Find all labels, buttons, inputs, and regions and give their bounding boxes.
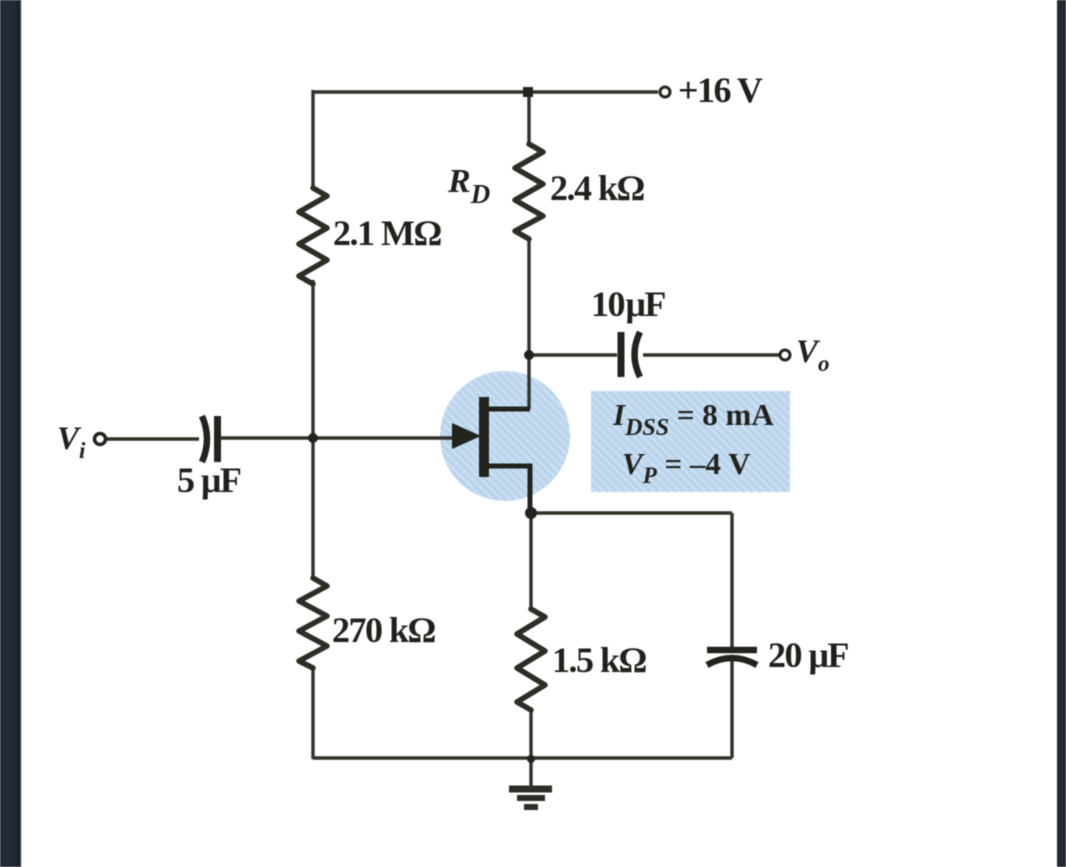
svg-text:10 μF: 10 μF xyxy=(591,284,665,324)
wire bypass branch upper xyxy=(730,513,733,647)
right dark sidebar xyxy=(1057,0,1066,867)
wire source branch down xyxy=(529,513,532,611)
wire output right xyxy=(643,353,779,356)
wire input to gate xyxy=(221,436,452,439)
wire left branch upper xyxy=(311,90,314,190)
svg-text:5 μF: 5 μF xyxy=(177,460,241,500)
svg-text:20 μF: 20 μF xyxy=(768,635,848,675)
terminal Vo xyxy=(780,350,790,360)
node source junction xyxy=(525,507,537,519)
resistor RD 2.4 kOhm xyxy=(515,144,543,239)
capacitor C3 20uF (straight top plate + curved bottom plate) xyxy=(707,650,757,665)
svg-text:+16 V: +16 V xyxy=(678,70,763,110)
capacitor C2 10uF (straight left plate + curved right plate) xyxy=(621,332,640,377)
wire top rail xyxy=(313,90,658,93)
node top junction xyxy=(523,87,533,97)
terminal +16V xyxy=(660,87,670,97)
highlight box device specs xyxy=(591,391,790,492)
node ground junction xyxy=(527,755,535,763)
wire drain branch lower xyxy=(527,237,530,409)
wire output left xyxy=(529,353,617,356)
wire left branch middle xyxy=(311,280,314,580)
ground xyxy=(509,789,552,807)
wire ground stem xyxy=(529,758,532,787)
wire bottom rail xyxy=(313,756,732,759)
transistor Q1 drain lead xyxy=(487,407,530,412)
svg-text:1.5 kΩ: 1.5 kΩ xyxy=(552,640,647,680)
resistor RG1 2.1 MOhm xyxy=(299,188,327,284)
wire input left xyxy=(106,437,199,440)
svg-text:270 kΩ: 270 kΩ xyxy=(332,610,436,650)
node gate junction xyxy=(308,433,318,443)
JFET highlight circle xyxy=(440,371,570,501)
transistor Q1 JFET channel bar xyxy=(479,397,489,477)
svg-text:2.4 kΩ: 2.4 kΩ xyxy=(550,168,645,208)
left dark sidebar xyxy=(0,0,21,867)
wire left branch lower xyxy=(311,666,314,759)
transistor Q1 gate arrow xyxy=(452,423,481,449)
wire below RS xyxy=(529,708,532,758)
svg-text:2.1 MΩ: 2.1 MΩ xyxy=(333,213,441,253)
capacitor C1 5uF (curved left plate + straight right plate) xyxy=(202,416,218,462)
wire drain branch upper xyxy=(527,92,530,146)
wire bypass branch lower xyxy=(730,660,733,758)
resistor RG2 270 kOhm xyxy=(299,578,327,668)
wire source node rail xyxy=(531,511,732,514)
resistor RS 1.5 kOhm xyxy=(517,609,545,710)
node drain/output junction xyxy=(524,350,534,360)
terminal Vi xyxy=(95,434,106,445)
transistor Q1 source lead xyxy=(487,466,530,513)
